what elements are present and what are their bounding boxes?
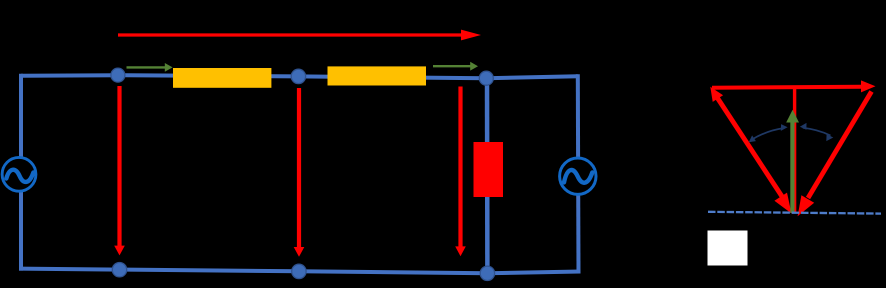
wire top bus	[21, 75, 578, 78]
current arrow I2 (down at node B)	[294, 88, 305, 257]
phasor reference vertical red line	[793, 88, 796, 212]
wire right vertical	[576, 74, 581, 273]
node B bottom	[292, 264, 306, 278]
phasor jXI (top horizontal arrow)	[712, 80, 876, 92]
dashed reference baseline	[708, 212, 881, 214]
ac source G1	[2, 157, 36, 191]
ac source G2	[560, 158, 596, 194]
angle arc delta2 (right)	[800, 123, 834, 141]
resistor R load	[474, 142, 504, 197]
phasor V2 (right slant, arrowhead at apex)	[798, 92, 872, 217]
inductor X1 (line reactance 1)	[173, 68, 271, 88]
inductor X2 (line reactance 2)	[328, 66, 427, 85]
green resultant arrow	[786, 110, 799, 213]
node C top	[479, 71, 493, 85]
wire load branch	[485, 78, 490, 273]
wire left vertical	[19, 74, 23, 271]
wire bottom bus	[19, 269, 581, 274]
node B top	[291, 69, 305, 83]
green flow arrow 1	[127, 63, 173, 72]
white legend box	[708, 231, 748, 266]
power flow arrow P (top)	[118, 30, 481, 41]
phasor V1 (left slant, arrowheads both ends)	[710, 87, 791, 214]
angle arc delta1 (left)	[749, 124, 788, 142]
node A top	[111, 68, 125, 82]
current arrow I3 (down near load)	[455, 87, 466, 257]
green flow arrow 2	[433, 62, 478, 71]
current arrow I1 (down at node A)	[114, 86, 125, 255]
node C bottom	[480, 266, 494, 280]
node A bottom	[112, 263, 126, 277]
